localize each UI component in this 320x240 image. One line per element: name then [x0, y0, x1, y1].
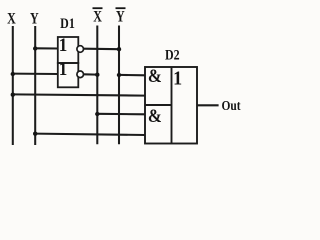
svg-text:1: 1 — [59, 34, 68, 55]
svg-text:Out: Out — [222, 98, 242, 113]
svg-text:D2: D2 — [165, 46, 180, 63]
svg-text:&: & — [148, 65, 162, 86]
svg-text:Y: Y — [116, 8, 125, 26]
svg-text:D1: D1 — [60, 15, 75, 32]
svg-text:Y: Y — [30, 10, 39, 28]
svg-text:&: & — [148, 105, 162, 126]
svg-text:X: X — [7, 10, 16, 28]
svg-text:1: 1 — [59, 58, 68, 79]
svg-text:1: 1 — [173, 68, 182, 90]
svg-text:X: X — [93, 8, 102, 26]
